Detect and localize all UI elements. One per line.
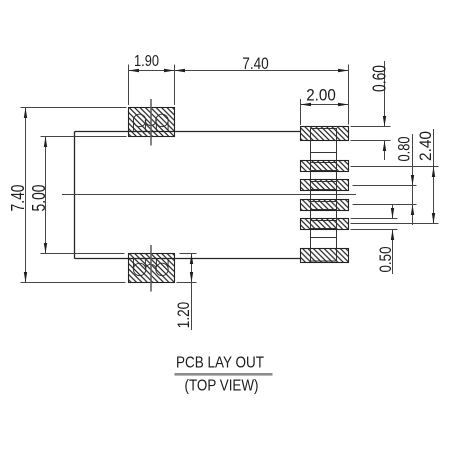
mounting pad top-left (hatched) bbox=[129, 108, 175, 137]
svg-text:2.40: 2.40 bbox=[416, 131, 435, 161]
dimension 2.00 witness line bbox=[300, 99, 302, 125]
component body bottom edge bbox=[75, 258, 302, 260]
pad bottom-left slot stems bbox=[134, 259, 169, 268]
signal pad P5 (hatched) bbox=[301, 219, 349, 230]
svg-text:0.60: 0.60 bbox=[369, 65, 389, 92]
pad top-left slot stems bbox=[134, 123, 169, 131]
pin contact stub P1 bbox=[311, 129, 337, 153]
dimension 2.40 line bbox=[433, 129, 435, 224]
component body top edge bbox=[75, 131, 302, 133]
signal pad P4 (hatched) bbox=[301, 200, 349, 211]
dimension 0.80 line bbox=[412, 134, 414, 225]
horizontal centerline bbox=[62, 194, 356, 196]
dimension 7.40h line bbox=[175, 70, 349, 72]
connector tongue left edge bbox=[310, 153, 312, 238]
pad bottom-left crosshair bbox=[150, 245, 152, 292]
svg-text:1.20: 1.20 bbox=[174, 302, 193, 329]
dimension 5.00 line bbox=[45, 137, 47, 254]
pad bottom-left hole circle left bbox=[133, 263, 145, 275]
svg-text:PCB LAY OUT: PCB LAY OUT bbox=[176, 355, 264, 372]
dimension 0.60 line bbox=[384, 61, 386, 127]
dimension 2.40 witness lines bbox=[351, 166, 439, 168]
signal pad P3 (hatched) bbox=[301, 180, 349, 191]
dimension 7.40h witness line bbox=[348, 65, 350, 125]
pin contact stub P6 bbox=[311, 238, 337, 262]
svg-text:(TOP VIEW): (TOP VIEW) bbox=[185, 378, 259, 395]
component body left edge bbox=[74, 132, 76, 259]
mounting pad bottom-left (hatched) bbox=[129, 254, 175, 283]
dimension 5.00 witness lines bbox=[41, 136, 127, 138]
dimension 1.90 witness lines bbox=[128, 65, 130, 106]
dimension 7.40v line bbox=[25, 108, 27, 283]
pad bottom-left hole circle right bbox=[156, 263, 168, 275]
svg-text:5.00: 5.00 bbox=[29, 185, 49, 212]
signal pad P1 (hatched) bbox=[301, 127, 349, 141]
svg-text:0.80: 0.80 bbox=[395, 137, 414, 162]
signal pad P6 (hatched) bbox=[301, 249, 349, 263]
dimension 1.20 witness lines bbox=[180, 253, 197, 255]
dimension 2.00 line bbox=[301, 104, 349, 106]
pin contact stub P5 bbox=[311, 221, 337, 229]
pad top-left center slot arc bbox=[145, 120, 156, 126]
dimension 7.40v witness lines bbox=[21, 107, 127, 109]
pad top-left hole circle right bbox=[156, 114, 168, 126]
svg-text:7.40: 7.40 bbox=[242, 54, 269, 73]
dimension 0.50 witness lines bbox=[351, 218, 398, 220]
title underline bbox=[175, 373, 273, 376]
signal pad P2 (hatched) bbox=[301, 161, 349, 172]
svg-text:2.00: 2.00 bbox=[306, 86, 336, 105]
svg-text:7.40: 7.40 bbox=[8, 185, 28, 212]
pad bottom-left center slot arc bbox=[145, 264, 156, 270]
dimension 0.80 witness lines bbox=[353, 185, 417, 187]
connector tongue right edge bbox=[336, 153, 338, 238]
svg-text:0.50: 0.50 bbox=[376, 247, 395, 273]
dimension 0.60 witness lines bbox=[351, 126, 391, 128]
dimension 1.90 line bbox=[129, 70, 175, 72]
pin contact stub P4 bbox=[311, 202, 337, 210]
pad top-left hole circle left bbox=[133, 114, 145, 126]
dimension 0.50 line bbox=[392, 205, 394, 219]
pin contact stub P2 bbox=[311, 163, 337, 171]
svg-text:1.90: 1.90 bbox=[134, 53, 159, 70]
pin contact stub P3 bbox=[311, 182, 337, 190]
dimension 1.20 line bbox=[191, 254, 193, 331]
pad top-left crosshair bbox=[150, 99, 152, 146]
